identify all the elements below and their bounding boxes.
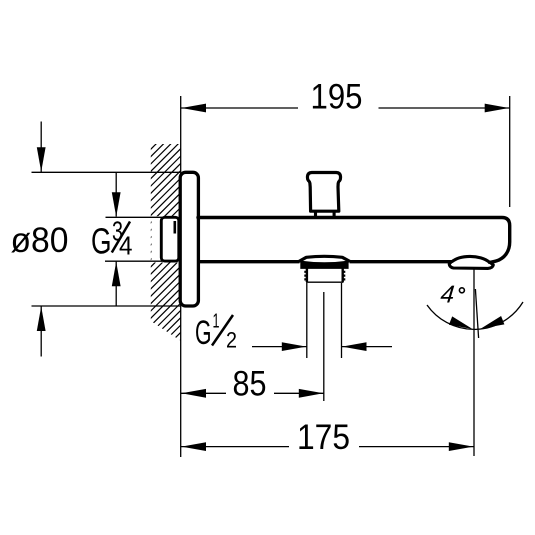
shower outlet thread bottom — [306, 281, 344, 283]
dimension G1/2 arrows — [282, 342, 307, 351]
svg-text:195: 195 — [311, 78, 363, 117]
dimension G1/2 lines — [252, 283, 392, 358]
spout body bottom edge left — [198, 260, 300, 263]
svg-text:175: 175 — [297, 418, 350, 457]
dimension G3/4 leader lines — [105, 173, 162, 306]
shower outlet rim — [300, 261, 348, 269]
svg-text:G: G — [91, 221, 112, 262]
4deg tilted stream line — [475, 289, 478, 338]
dimension 175 line — [181, 446, 474, 448]
svg-text:ø80: ø80 — [11, 221, 69, 260]
dimension 85 line — [181, 392, 324, 394]
G3/4 fitting thread mark — [174, 221, 177, 234]
dimension G3/4 arrows — [112, 192, 121, 217]
spout outlet lip top arc — [452, 256, 490, 262]
shower outlet thread right edge — [342, 269, 344, 283]
4deg arc — [427, 302, 523, 329]
fitting clearance — [152, 216, 180, 262]
dimension dia80 leader lines — [32, 122, 181, 357]
shower outlet centerline — [323, 292, 325, 401]
shower outlet thread left edge — [306, 269, 308, 283]
dimension 195 line — [181, 96, 510, 207]
spout body bottom edge right — [350, 260, 452, 263]
dimension 175 arrows — [182, 442, 207, 451]
svg-text:G: G — [195, 314, 212, 352]
spout body top edge and right end — [198, 218, 510, 263]
svg-text:85: 85 — [233, 365, 267, 404]
dimension 85 arrows — [182, 389, 207, 398]
dimension dia80 arrows — [37, 147, 46, 172]
spout outlet centerline — [473, 269, 475, 457]
dimension 195 arrows — [182, 104, 207, 113]
svg-text:4: 4 — [439, 282, 455, 309]
diverter knob — [316, 211, 335, 217]
svg-text:1: 1 — [213, 311, 220, 333]
4deg arc arrows — [449, 316, 473, 329]
shower outlet dome — [299, 256, 350, 261]
G3/4 inlet fitting — [161, 217, 179, 261]
wall face extension line — [180, 96, 182, 457]
spout outlet lip bottom — [449, 262, 493, 269]
svg-text:2: 2 — [226, 328, 237, 353]
wall flange — [180, 172, 198, 306]
